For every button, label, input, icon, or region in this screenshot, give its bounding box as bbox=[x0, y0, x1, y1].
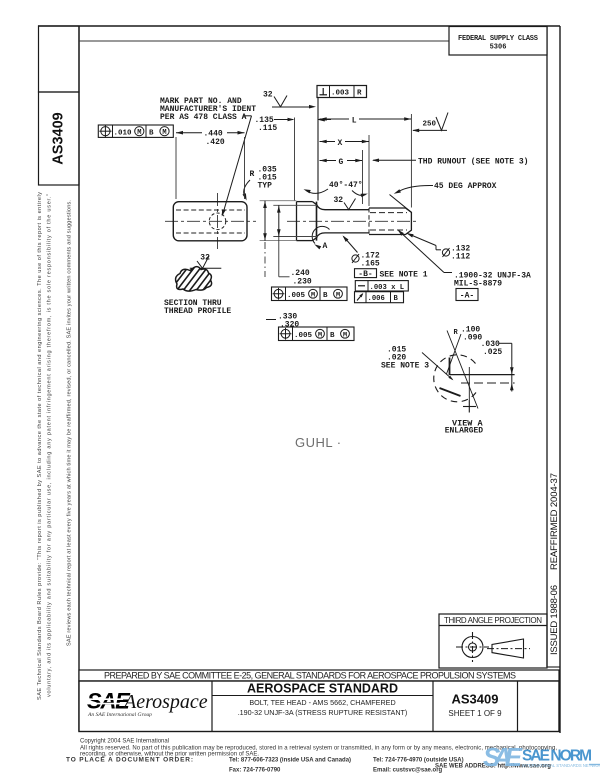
svg-text:32: 32 bbox=[263, 91, 273, 100]
view A axis line bbox=[447, 331, 478, 409]
svg-text:REAFFIRMED 2004-37: REAFFIRMED 2004-37 bbox=[549, 473, 560, 570]
sheet left margin boxes bbox=[39, 26, 80, 92]
head-to-shank fillet bottom bbox=[313, 233, 370, 241]
svg-text:voluntary, and its applicabili: voluntary, and its applicability and sui… bbox=[47, 194, 53, 697]
svg-text:INTERNATIONAL STANDARDS NETWOR: INTERNATIONAL STANDARDS NETWORK bbox=[522, 763, 600, 768]
copyright fine print bbox=[66, 739, 557, 774]
svg-text:Email: custsvc@sae.org: Email: custsvc@sae.org bbox=[373, 768, 443, 774]
runout frame bbox=[355, 292, 404, 303]
third angle projection box bbox=[439, 614, 547, 668]
svg-text:Tel: 877-606-7323 (inside USA: Tel: 877-606-7323 (inside USA and Canada… bbox=[229, 758, 351, 764]
svg-text:SAE: SAE bbox=[483, 742, 523, 772]
svg-text:.115: .115 bbox=[258, 124, 277, 133]
250 finish symbol bbox=[413, 129, 447, 131]
svg-text:X: X bbox=[338, 139, 343, 148]
svg-text:.420: .420 bbox=[206, 138, 225, 147]
svg-text:BOLT, TEE HEAD - AMS 5662, CHA: BOLT, TEE HEAD - AMS 5662, CHAMFERED bbox=[249, 698, 395, 707]
mark note leader bbox=[243, 115, 252, 117]
svg-text:MIL-S-8879: MIL-S-8879 bbox=[454, 280, 502, 289]
SAE NORM watermark bbox=[483, 742, 600, 772]
svg-text:.010: .010 bbox=[114, 129, 133, 137]
svg-text:TYP: TYP bbox=[258, 182, 273, 191]
svg-text:.165: .165 bbox=[361, 260, 380, 269]
svg-text:M: M bbox=[318, 331, 322, 339]
projection symbol cone bbox=[492, 639, 524, 658]
svg-text:-B-: -B- bbox=[358, 270, 372, 279]
svg-text:.003 x L: .003 x L bbox=[370, 284, 405, 292]
.240/.230 extension lines bbox=[273, 204, 317, 206]
svg-text:Aerospace: Aerospace bbox=[122, 691, 208, 713]
svg-text:GUHL ·: GUHL · bbox=[295, 435, 342, 450]
svg-text:45 DEG APPROX: 45 DEG APPROX bbox=[434, 182, 497, 191]
.440/.420 head length dimension bbox=[175, 137, 177, 199]
chamfer extension line bbox=[390, 195, 412, 213]
svg-text:An SAE International Group: An SAE International Group bbox=[87, 712, 152, 718]
svg-text:SAE reviews each technical rep: SAE reviews each technical report at lea… bbox=[67, 200, 73, 646]
svg-text:32: 32 bbox=[334, 196, 344, 205]
svg-text:B: B bbox=[394, 295, 399, 303]
svg-text:SAE Technical Standards Board: SAE Technical Standards Board Rules prov… bbox=[37, 192, 43, 700]
svg-text:40°-47°: 40°-47° bbox=[329, 181, 363, 190]
svg-text:.005: .005 bbox=[287, 292, 306, 300]
thread start hidden line bbox=[368, 208, 370, 235]
L overall length dimension bbox=[317, 98, 319, 201]
.330/.320 dimension bbox=[264, 201, 266, 241]
SAE Aerospace logo bbox=[87, 689, 208, 719]
radius note leader bbox=[244, 180, 250, 199]
svg-text:250: 250 bbox=[423, 121, 437, 129]
view A indicator arc bbox=[312, 226, 329, 243]
X grip dimension bbox=[368, 135, 370, 206]
svg-text:AS3409: AS3409 bbox=[452, 692, 499, 707]
svg-text:.003: .003 bbox=[331, 90, 350, 98]
svg-text:.190-32 UNJF-3A (STRESS RUPTUR: .190-32 UNJF-3A (STRESS RUPTURE RESISTAN… bbox=[238, 708, 408, 717]
G gauge dimension bbox=[362, 150, 364, 204]
position frame for .330 dim bbox=[279, 327, 355, 341]
svg-text:R: R bbox=[454, 329, 459, 337]
svg-text:SEE NOTE 1: SEE NOTE 1 bbox=[380, 271, 428, 280]
left margin disclaimer rotated text bbox=[37, 192, 73, 700]
bolt side view: head bbox=[296, 202, 298, 241]
svg-text:SEE NOTE 3: SEE NOTE 3 bbox=[381, 362, 429, 371]
svg-text:32: 32 bbox=[200, 254, 210, 263]
.330/.320 extension lines bbox=[260, 200, 297, 202]
drawing frame inner top border bbox=[79, 40, 449, 42]
svg-text:FEDERAL SUPPLY CLASS: FEDERAL SUPPLY CLASS bbox=[458, 35, 538, 43]
svg-text:M: M bbox=[311, 291, 315, 299]
svg-text:PER AS 478 CLASS A: PER AS 478 CLASS A bbox=[160, 113, 247, 122]
svg-text:SHEET 1 OF 9: SHEET 1 OF 9 bbox=[448, 709, 502, 718]
svg-text:R: R bbox=[357, 90, 362, 98]
svg-text:AS3409: AS3409 bbox=[51, 112, 67, 164]
svg-text:Copyright 2004 SAE Internation: Copyright 2004 SAE International bbox=[80, 739, 169, 745]
tee head hidden shank circle bbox=[209, 213, 226, 230]
svg-text:B: B bbox=[149, 129, 154, 137]
svg-text:M: M bbox=[336, 291, 340, 299]
svg-text:PREPARED BY SAE COMMITTEE E-25: PREPARED BY SAE COMMITTEE E-25, GENERAL … bbox=[104, 671, 516, 681]
position frame for .240 dim bbox=[272, 287, 348, 301]
svg-text:M: M bbox=[162, 129, 166, 137]
svg-text:.230: .230 bbox=[293, 278, 312, 287]
svg-text:ISSUED 1988-06: ISSUED 1988-06 bbox=[549, 585, 560, 655]
svg-text:.006: .006 bbox=[368, 295, 385, 303]
section thru thread profile sketch bbox=[166, 262, 238, 296]
svg-text:5306: 5306 bbox=[490, 44, 507, 52]
view A detail: dashed arc bbox=[434, 355, 476, 402]
sheet outer border top bbox=[38, 25, 560, 27]
svg-text:R: R bbox=[250, 170, 255, 179]
svg-text:.025: .025 bbox=[483, 348, 502, 357]
tee head hidden shank lines bbox=[176, 209, 245, 211]
straightness frame bbox=[355, 281, 408, 291]
right margin divider tick bbox=[547, 666, 560, 668]
position frame for head marking bbox=[98, 125, 173, 137]
perpendicularity frame bbox=[317, 86, 367, 98]
.135/.115 head thickness dimension bbox=[294, 118, 296, 201]
projection symbol circles bbox=[456, 632, 489, 662]
title block frame bbox=[79, 681, 559, 732]
sheet outer right border bbox=[559, 26, 561, 733]
.240/.230 dimension bbox=[278, 205, 280, 236]
svg-text:.090: .090 bbox=[463, 334, 482, 343]
threaded portion outline bbox=[369, 208, 411, 235]
drawing frame right inner border bbox=[546, 26, 548, 667]
view A center cross bbox=[468, 367, 470, 401]
svg-text:.112: .112 bbox=[451, 253, 470, 262]
prepared-by strip bbox=[79, 670, 559, 681]
svg-text:.005: .005 bbox=[294, 332, 313, 340]
point diameter callout bbox=[436, 249, 441, 251]
svg-text:M: M bbox=[137, 129, 141, 137]
svg-text:AEROSPACE STANDARD: AEROSPACE STANDARD bbox=[247, 682, 398, 696]
shank diameter callout bbox=[352, 255, 359, 262]
svg-text:SAE NORM: SAE NORM bbox=[522, 748, 592, 765]
tee head front view outline bbox=[173, 202, 247, 241]
thread minor dia hidden lines bbox=[370, 212, 407, 214]
svg-text:.320: .320 bbox=[280, 321, 299, 330]
svg-text:L: L bbox=[352, 117, 357, 126]
svg-text:M: M bbox=[343, 331, 347, 339]
svg-text:B: B bbox=[330, 332, 335, 340]
svg-text:G: G bbox=[339, 158, 344, 167]
bolt centerline (side view) bbox=[287, 220, 419, 222]
svg-text:THREAD PROFILE: THREAD PROFILE bbox=[164, 307, 231, 316]
federal supply class box bbox=[449, 27, 547, 56]
svg-text:THIRD ANGLE PROJECTION: THIRD ANGLE PROJECTION bbox=[444, 616, 542, 625]
view A detail: fillet profile bbox=[449, 358, 451, 376]
head centerline horizontal (front view) bbox=[165, 220, 256, 222]
datum B symbol bbox=[355, 269, 377, 278]
svg-text:ENLARGED: ENLARGED bbox=[445, 427, 484, 436]
datum A symbol bbox=[456, 289, 478, 301]
svg-text:B: B bbox=[323, 292, 328, 300]
svg-text:Fax: 724-776-0790: Fax: 724-776-0790 bbox=[229, 768, 281, 774]
svg-text:-A-: -A- bbox=[460, 292, 474, 301]
svg-text:A: A bbox=[323, 242, 328, 251]
head centerline vertical (front view) bbox=[217, 193, 219, 249]
head-to-shank fillet top bbox=[313, 202, 370, 210]
drawing frame left border bbox=[78, 26, 80, 732]
svg-text:THD RUNOUT (SEE NOTE 3): THD RUNOUT (SEE NOTE 3) bbox=[418, 158, 528, 167]
svg-text:TO PLACE A DOCUMENT ORDER:: TO PLACE A DOCUMENT ORDER: bbox=[66, 757, 193, 764]
